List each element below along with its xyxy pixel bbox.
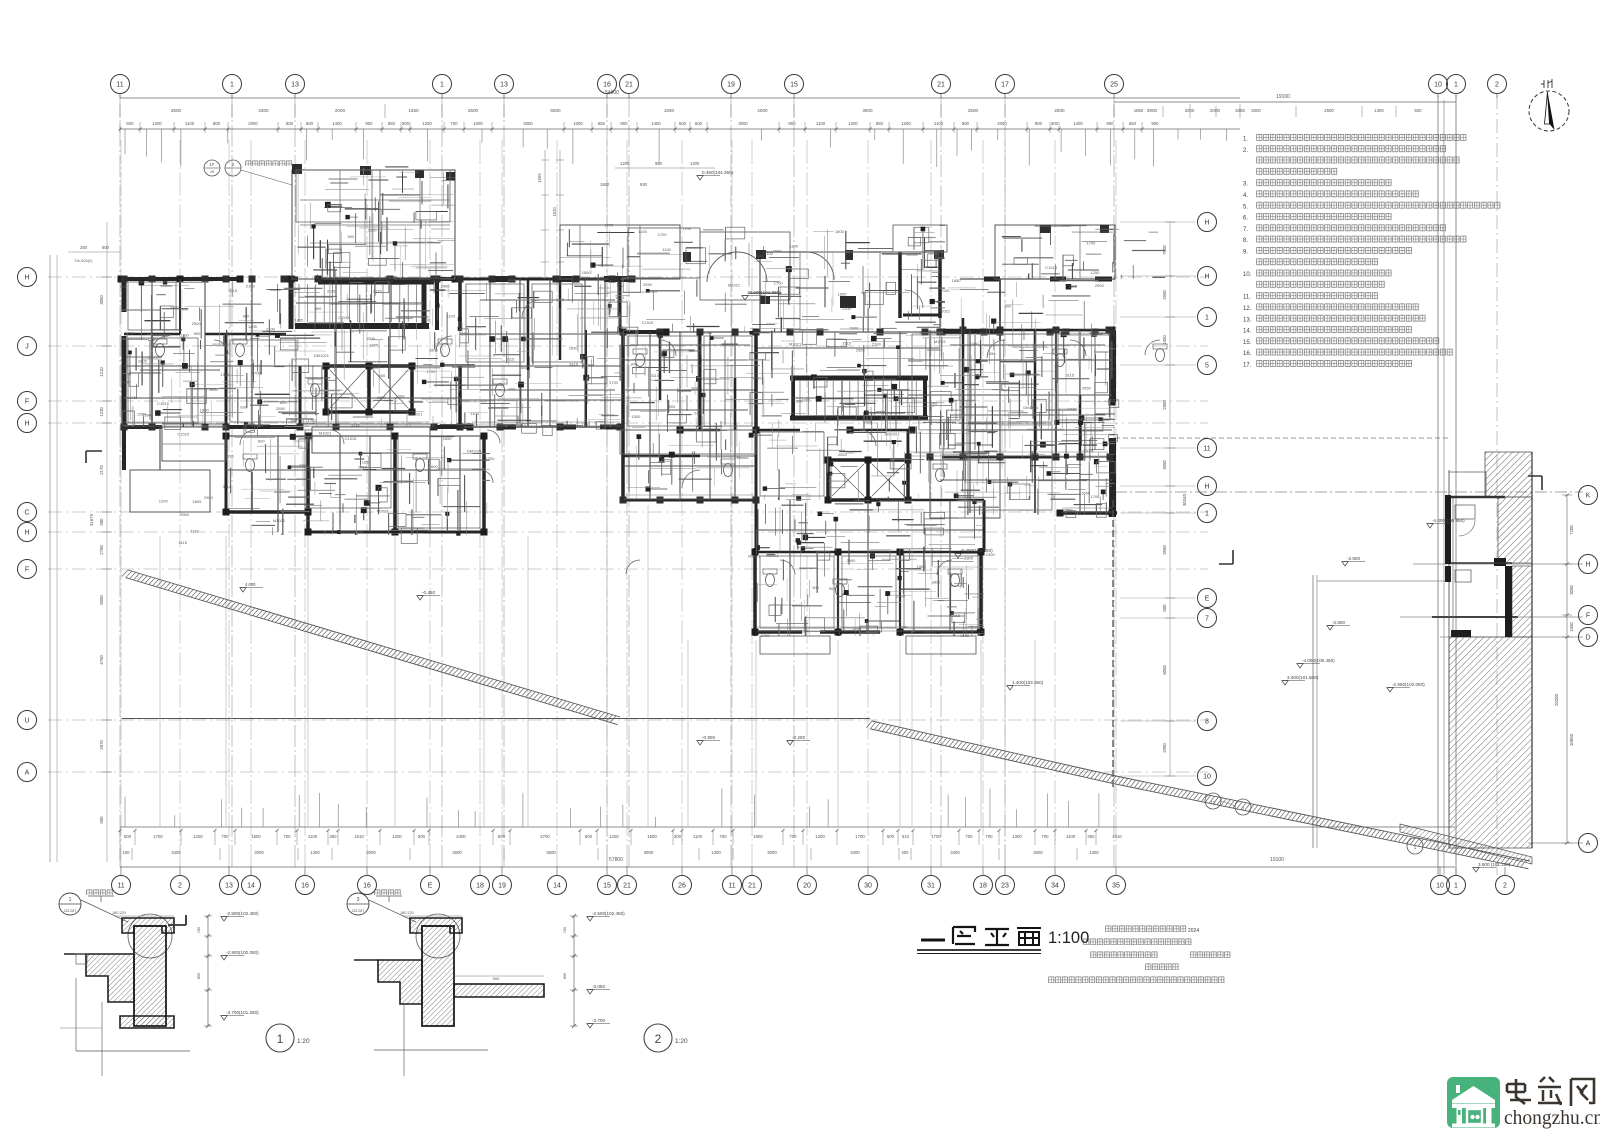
svg-text:1100: 1100	[581, 422, 590, 427]
svg-text:2500: 2500	[968, 108, 979, 113]
svg-text:2550: 2550	[180, 512, 190, 517]
svg-text:700: 700	[965, 834, 973, 839]
svg-text:2650: 2650	[1162, 290, 1167, 300]
svg-text:A: A	[25, 770, 30, 777]
svg-text:M1021: M1021	[923, 630, 936, 635]
title annotation small lines	[1048, 925, 1231, 983]
chongzhu logo green box with house	[1447, 1077, 1500, 1128]
svg-text:15.: 15.	[1243, 340, 1252, 346]
svg-text:18: 18	[979, 883, 987, 890]
svg-text:1100: 1100	[693, 834, 703, 839]
svg-text:1900: 1900	[753, 834, 763, 839]
svg-text:H: H	[1585, 562, 1590, 569]
svg-text:1100: 1100	[180, 333, 189, 338]
svg-text:C1515: C1515	[177, 432, 190, 437]
svg-text:7000: 7000	[1162, 245, 1167, 255]
svg-text:1400: 1400	[651, 121, 661, 126]
svg-text:21: 21	[937, 82, 945, 89]
svg-text:6050: 6050	[1162, 665, 1167, 675]
unit2 top wall	[620, 329, 1004, 336]
svg-text:350: 350	[1087, 834, 1095, 839]
svg-text:3.: 3.	[1243, 182, 1248, 188]
svg-text:-3.050: -3.050	[592, 984, 605, 989]
svg-text:800: 800	[962, 121, 970, 126]
svg-text:1: 1	[230, 82, 234, 89]
svg-text:1200: 1200	[848, 121, 858, 126]
svg-text:1500: 1500	[200, 407, 210, 412]
svg-text:1700: 1700	[153, 834, 163, 839]
unit2 west partitions	[623, 332, 756, 500]
svg-text:250: 250	[80, 245, 88, 250]
svg-text:1805: 1805	[429, 348, 439, 353]
svg-text:3115: 3115	[952, 613, 961, 618]
svg-text:1200: 1200	[852, 626, 862, 631]
svg-text:F: F	[25, 567, 29, 574]
svg-text:3115: 3115	[373, 289, 382, 294]
svg-text:2100: 2100	[872, 341, 882, 346]
svg-text:19: 19	[498, 883, 506, 890]
unit2 lower partitions	[756, 500, 984, 632]
stair upper dim chains	[537, 150, 715, 279]
svg-text:3000: 3000	[523, 121, 533, 126]
svg-text:DM1021: DM1021	[885, 432, 901, 437]
svg-text:600: 600	[585, 834, 593, 839]
svg-text:1: 1	[440, 82, 444, 89]
svg-text:10: 10	[1436, 883, 1444, 890]
svg-text:900: 900	[99, 518, 104, 526]
svg-text:2550: 2550	[643, 282, 653, 287]
svg-text:M1021: M1021	[789, 342, 802, 347]
svg-text:2100: 2100	[121, 379, 131, 384]
svg-text:1500: 1500	[631, 414, 641, 419]
svg-text:500: 500	[887, 834, 895, 839]
svg-text:chongzhu.cn: chongzhu.cn	[1504, 1108, 1600, 1129]
svg-text:1200: 1200	[421, 318, 431, 323]
svg-text:M1021: M1021	[766, 553, 779, 558]
svg-text:1700: 1700	[931, 834, 941, 839]
top left small dims	[68, 245, 120, 263]
svg-text:C1515: C1515	[642, 320, 655, 325]
svg-text:2: 2	[655, 1032, 662, 1046]
svg-text:1700: 1700	[1087, 240, 1097, 245]
svg-text:2500: 2500	[1054, 108, 1065, 113]
svg-text:21: 21	[748, 883, 756, 890]
svg-text:2.: 2.	[1243, 148, 1248, 154]
unit1 left outer wall	[122, 277, 127, 427]
svg-text:2000: 2000	[248, 121, 258, 126]
balcony row under unit1	[162, 427, 756, 461]
svg-text:3900: 3900	[644, 850, 654, 855]
top dimension band	[119, 90, 1457, 133]
svg-text:3.600 (101.250): 3.600 (101.250)	[1478, 862, 1511, 867]
svg-text:600: 600	[102, 245, 110, 250]
svg-text:H: H	[1204, 220, 1209, 227]
svg-text:21: 21	[623, 883, 631, 890]
svg-text:650: 650	[388, 121, 396, 126]
svg-text:1805: 1805	[138, 359, 148, 364]
svg-text:1500: 1500	[703, 330, 713, 335]
svg-text:2550: 2550	[276, 406, 286, 411]
title: first floor plan 1:100	[917, 927, 1089, 954]
svg-text:J12.027: J12.027	[64, 909, 77, 913]
svg-text:1200: 1200	[486, 456, 496, 461]
svg-text:4750: 4750	[99, 655, 104, 665]
svg-text:1700: 1700	[682, 226, 692, 231]
svg-text:900: 900	[120, 284, 127, 289]
svg-text:10: 10	[1203, 774, 1211, 781]
unit1 lower partitions	[226, 436, 484, 532]
svg-text:M1021: M1021	[410, 412, 423, 417]
svg-text:23: 23	[1001, 883, 1009, 890]
terrace bottom edge line	[122, 718, 870, 720]
svg-text:19100: 19100	[1270, 857, 1284, 863]
svg-text:H: H	[24, 421, 29, 428]
svg-text:1400: 1400	[332, 121, 342, 126]
svg-text:1100: 1100	[170, 305, 179, 310]
svg-text:1805: 1805	[369, 343, 379, 348]
svg-text:DM1021: DM1021	[1023, 405, 1039, 410]
svg-text:1700: 1700	[753, 376, 763, 381]
svg-text:2000: 2000	[757, 108, 768, 113]
svg-text:650: 650	[1129, 121, 1137, 126]
svg-text:21: 21	[625, 82, 633, 89]
svg-text:3115: 3115	[327, 288, 336, 293]
svg-text:500: 500	[679, 121, 687, 126]
svg-text:7200: 7200	[1569, 525, 1574, 535]
svg-text:30: 30	[864, 883, 872, 890]
svg-text:3600: 3600	[862, 108, 873, 113]
svg-text:M1021: M1021	[938, 309, 951, 314]
svg-text:900: 900	[812, 585, 819, 590]
svg-text:C1515: C1515	[1053, 329, 1066, 334]
svg-text:2900: 2900	[849, 326, 859, 331]
svg-text:2000: 2000	[997, 121, 1007, 126]
svg-text:2870: 2870	[99, 740, 104, 750]
svg-text:1: 1	[1205, 315, 1209, 322]
svg-text:M1021: M1021	[728, 283, 741, 288]
svg-text:10.000(101.350): 10.000(101.350)	[747, 290, 781, 295]
svg-text:1200: 1200	[815, 834, 825, 839]
svg-text:650: 650	[876, 121, 884, 126]
svg-text:2550: 2550	[856, 347, 866, 352]
svg-text:1650: 1650	[408, 108, 419, 113]
svg-text:1500: 1500	[582, 270, 592, 275]
interior annotation speckle	[120, 222, 1104, 638]
svg-text:13: 13	[291, 82, 299, 89]
bottom band rising tick lines	[125, 789, 1099, 828]
svg-text:300: 300	[1051, 121, 1059, 126]
svg-text:1.: 1.	[1243, 137, 1248, 143]
svg-text:3900: 3900	[1147, 108, 1158, 113]
svg-text:700: 700	[283, 834, 291, 839]
svg-text:M1021: M1021	[748, 554, 761, 559]
svg-text:2550: 2550	[1082, 385, 1092, 390]
svg-text:1650: 1650	[443, 436, 453, 441]
svg-text:2100: 2100	[960, 633, 970, 638]
left axis bubbles	[18, 268, 37, 782]
svg-text:3115: 3115	[223, 484, 232, 489]
svg-text:900: 900	[493, 976, 500, 981]
svg-text:3000: 3000	[254, 850, 264, 855]
svg-text:5: 5	[1205, 363, 1209, 370]
svg-text:16: 16	[363, 883, 371, 890]
svg-text:1050: 1050	[1569, 622, 1574, 632]
svg-text:1650: 1650	[952, 278, 962, 283]
svg-text:1700: 1700	[761, 633, 771, 638]
svg-text:8: 8	[1205, 719, 1209, 726]
svg-text:2900: 2900	[1095, 283, 1105, 288]
svg-text:1100: 1100	[370, 365, 379, 370]
unit2 lower rooms	[752, 548, 985, 654]
flower box annex	[560, 225, 680, 279]
svg-text:3115: 3115	[178, 540, 187, 545]
svg-text:150: 150	[563, 927, 567, 933]
svg-text:1.400(103.350): 1.400(103.350)	[1012, 680, 1044, 685]
svg-text:3115: 3115	[351, 422, 360, 427]
svg-text:H: H	[24, 275, 29, 282]
svg-text:1500: 1500	[773, 248, 783, 253]
svg-text:15: 15	[790, 82, 798, 89]
svg-text:C1515: C1515	[931, 328, 944, 333]
svg-text:1200: 1200	[609, 834, 619, 839]
svg-text:2900: 2900	[192, 321, 202, 326]
svg-text:3050: 3050	[1569, 585, 1574, 595]
svg-text:3050: 3050	[99, 295, 104, 305]
unit1 east partitions	[460, 279, 623, 427]
unit1 mid rooms 460-620	[460, 279, 632, 427]
svg-text:850: 850	[197, 973, 201, 979]
svg-text:1300: 1300	[711, 850, 721, 855]
svg-text:100: 100	[122, 850, 130, 855]
svg-text:1100: 1100	[308, 834, 318, 839]
svg-text:1200: 1200	[422, 121, 432, 126]
svg-text:-0.450: -0.450	[422, 590, 435, 595]
svg-text:-2.500: -2.500	[1332, 620, 1345, 625]
svg-text:1100: 1100	[789, 243, 798, 248]
svg-text:3000: 3000	[738, 121, 748, 126]
svg-text:650: 650	[598, 121, 606, 126]
building5 hatched strip	[1449, 452, 1532, 848]
svg-text:1200: 1200	[159, 498, 169, 503]
svg-text:1400: 1400	[1073, 121, 1083, 126]
svg-text:3115: 3115	[506, 356, 515, 361]
svg-text:3000: 3000	[1033, 850, 1043, 855]
svg-text:4.: 4.	[1243, 193, 1248, 199]
svg-text:1200: 1200	[1083, 448, 1093, 453]
svg-text:3600: 3600	[452, 850, 462, 855]
svg-text:500: 500	[124, 834, 132, 839]
svg-text:900: 900	[509, 387, 516, 392]
svg-text:1300: 1300	[310, 850, 320, 855]
svg-text:900: 900	[315, 306, 322, 311]
svg-text:850: 850	[563, 973, 567, 979]
svg-text:C1515: C1515	[1045, 265, 1058, 270]
svg-text:1700: 1700	[658, 232, 668, 237]
svg-text:3115: 3115	[190, 529, 199, 534]
wall axis extension lines to bottom band	[160, 505, 1035, 826]
svg-text:2170: 2170	[99, 465, 104, 475]
svg-text:2: 2	[1503, 883, 1507, 890]
svg-text:1000: 1000	[573, 121, 583, 126]
axis grid horizontal lines	[48, 222, 1583, 843]
svg-text:500: 500	[1414, 108, 1422, 113]
svg-text:-0.200(104.750): -0.200(104.750)	[960, 548, 993, 553]
svg-text:900: 900	[243, 314, 250, 319]
north arrow compass	[1529, 79, 1569, 131]
svg-text:1700: 1700	[308, 418, 318, 423]
svg-text:C1515: C1515	[157, 401, 170, 406]
svg-text:11: 11	[1203, 446, 1210, 453]
svg-text:1650: 1650	[664, 108, 675, 113]
extra wall chunks along band	[121, 276, 1116, 632]
unit2 entrance canopy	[628, 228, 853, 304]
svg-text:M1021: M1021	[273, 518, 286, 523]
svg-text:30340: 30340	[1182, 493, 1187, 506]
svg-text:-0.200: -0.200	[792, 735, 805, 740]
svg-text:2550: 2550	[377, 395, 387, 400]
svg-text:900: 900	[788, 121, 796, 126]
svg-text:1650: 1650	[1081, 491, 1091, 496]
section marks	[86, 451, 1542, 925]
svg-text:510: 510	[902, 834, 910, 839]
svg-text:1200: 1200	[193, 834, 203, 839]
svg-text:1100: 1100	[801, 629, 810, 634]
svg-text:700: 700	[221, 834, 229, 839]
svg-text:20: 20	[803, 883, 811, 890]
unit2 stair core	[790, 378, 928, 418]
interior clutter line work	[121, 167, 1165, 636]
svg-text:950: 950	[655, 161, 663, 166]
left border construction lines	[50, 222, 107, 862]
svg-text:3115: 3115	[569, 362, 578, 367]
svg-text:600: 600	[1162, 604, 1167, 612]
bottom dimension band	[119, 827, 1456, 867]
general notes text block	[1243, 134, 1501, 369]
svg-text:3400: 3400	[950, 850, 960, 855]
svg-text:1805: 1805	[835, 229, 845, 234]
top band hanging tick lines	[125, 129, 1227, 167]
svg-text:300: 300	[674, 834, 682, 839]
svg-text:16.: 16.	[1243, 351, 1252, 357]
svg-text:1805: 1805	[295, 317, 305, 322]
svg-text:1: 1	[1454, 82, 1458, 89]
svg-text:3000: 3000	[1251, 108, 1261, 113]
svg-text:900: 900	[99, 816, 104, 824]
svg-text:800: 800	[1035, 121, 1043, 126]
svg-text:DM1021: DM1021	[467, 449, 483, 454]
svg-text:900: 900	[1106, 121, 1114, 126]
svg-text:3115: 3115	[1066, 372, 1075, 377]
unit1 stair core	[291, 279, 429, 329]
svg-text:-2.950(102.050): -2.950(102.050)	[1392, 682, 1425, 687]
unit2 stair annex top	[756, 250, 944, 332]
unit1 partitions	[124, 279, 460, 427]
svg-text:900: 900	[669, 404, 676, 409]
svg-text:1100: 1100	[662, 247, 671, 252]
svg-text:F: F	[1586, 613, 1590, 620]
svg-text:3115: 3115	[842, 341, 851, 346]
svg-text:600: 600	[348, 234, 355, 239]
svg-text:14: 14	[553, 883, 561, 890]
unit1 bottom wall and windows	[121, 424, 474, 431]
svg-text:700: 700	[719, 834, 727, 839]
svg-text:900: 900	[194, 331, 201, 336]
far right dim chain	[1554, 494, 1574, 845]
svg-text:3000: 3000	[767, 850, 777, 855]
svg-text:1700: 1700	[609, 380, 619, 385]
svg-text:2450: 2450	[1162, 335, 1167, 345]
svg-text:3115: 3115	[556, 297, 565, 302]
svg-text:11: 11	[116, 82, 123, 89]
svg-text:1100: 1100	[446, 314, 455, 319]
svg-text:34: 34	[1051, 883, 1059, 890]
svg-text:1200: 1200	[396, 393, 406, 398]
svg-text:1200: 1200	[392, 834, 402, 839]
unit1 top annex rooms	[292, 164, 455, 279]
unit2 core partitions	[756, 332, 940, 378]
svg-text:2550: 2550	[1064, 508, 1074, 513]
svg-text:5.: 5.	[1243, 204, 1248, 210]
svg-text:2950: 2950	[1162, 743, 1167, 753]
svg-text:1:20: 1:20	[675, 1038, 688, 1045]
slope ramp strip right diagonal	[866, 721, 1530, 869]
svg-text:6.: 6.	[1243, 216, 1248, 222]
svg-text:M1021: M1021	[377, 508, 390, 513]
svg-text:DM1021: DM1021	[271, 424, 287, 429]
unit3 rooms	[942, 279, 1117, 517]
svg-text:13: 13	[225, 883, 233, 890]
svg-text:8.: 8.	[1243, 238, 1248, 244]
fine hairline clutter	[121, 168, 1115, 636]
svg-text:M1021: M1021	[319, 431, 332, 436]
svg-text:3: 3	[357, 897, 360, 903]
svg-text:C1515: C1515	[345, 436, 358, 441]
svg-text:-0.900: -0.900	[702, 735, 715, 740]
svg-text:700: 700	[985, 834, 993, 839]
svg-text:C1515: C1515	[338, 315, 351, 320]
svg-text:600: 600	[280, 400, 287, 405]
svg-text:0.450(104.350): 0.450(104.350)	[702, 170, 734, 175]
svg-text:2100: 2100	[246, 284, 256, 289]
svg-text:-3.700: -3.700	[592, 1018, 605, 1023]
svg-text:-3.700(101.250): -3.700(101.250)	[226, 1010, 259, 1015]
unit1 top outer wall	[118, 276, 459, 283]
svg-text:500: 500	[418, 834, 426, 839]
terrace right edge dashed	[1112, 500, 1114, 788]
svg-text:2500: 2500	[1324, 108, 1334, 113]
svg-text:1300: 1300	[846, 450, 856, 455]
svg-text:600: 600	[379, 373, 386, 378]
svg-text:1700: 1700	[774, 280, 784, 285]
svg-text:K: K	[1586, 493, 1591, 500]
svg-text:1700: 1700	[855, 834, 865, 839]
svg-text:1650: 1650	[569, 345, 579, 350]
callout circles top left	[204, 160, 293, 185]
svg-text:2400: 2400	[456, 834, 466, 839]
svg-text:180 220: 180 220	[400, 911, 414, 915]
svg-text:3300: 3300	[258, 108, 269, 113]
svg-text:31675: 31675	[89, 513, 94, 526]
svg-text:2000: 2000	[1210, 108, 1221, 113]
svg-text:1650: 1650	[209, 387, 219, 392]
svg-text:350: 350	[329, 834, 337, 839]
svg-text:1230: 1230	[99, 407, 104, 417]
svg-text:2: 2	[178, 883, 182, 890]
building5 walls	[1445, 495, 1512, 637]
left dimension chain	[89, 277, 112, 824]
svg-text:3000: 3000	[366, 850, 376, 855]
svg-text:2500: 2500	[468, 108, 479, 113]
